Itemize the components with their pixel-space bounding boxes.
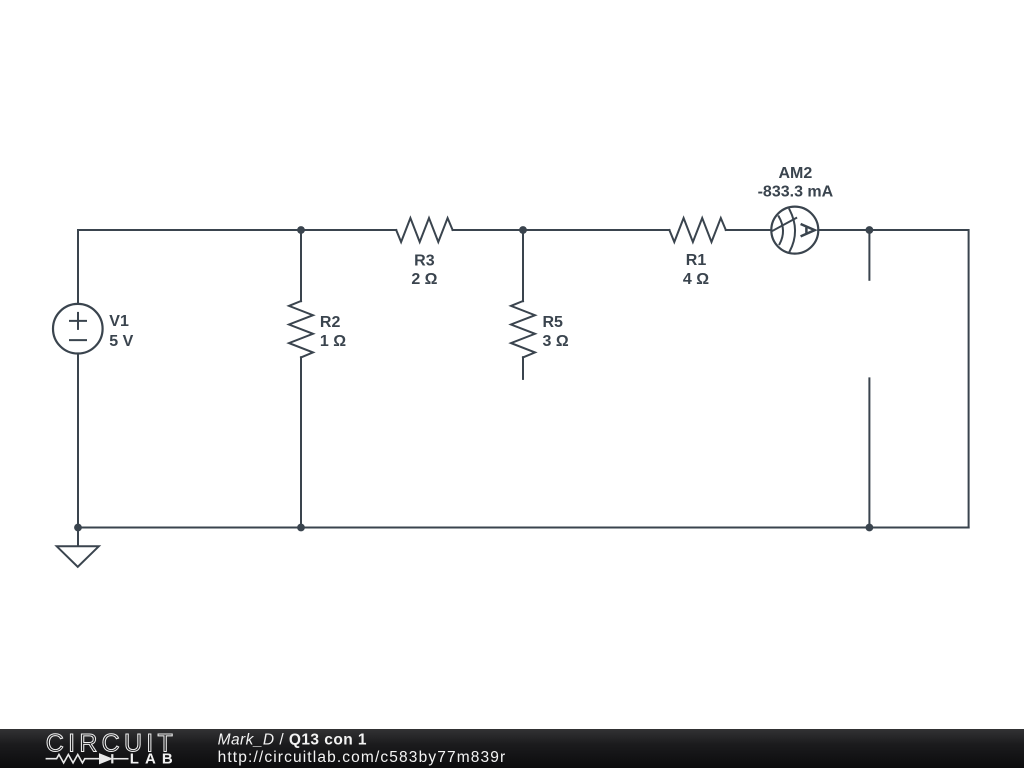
node B (R5 / top wire junction) [519, 226, 527, 234]
footer bar [0, 729, 1024, 768]
svg-text:R5: R5 [543, 314, 564, 331]
ammeter AM2 letter A [801, 224, 815, 236]
svg-text:2 Ω: 2 Ω [411, 271, 437, 288]
resistor R2 [289, 301, 313, 357]
node G (right stub bottom junction) [866, 524, 874, 532]
wire stub above bottom node D [868, 378, 870, 527]
ground [57, 528, 99, 567]
svg-text:Mark_D / Q13 con 1: Mark_D / Q13 con 1 [218, 732, 367, 749]
node C (AM2 output junction) [866, 226, 874, 234]
resistor R5 [511, 301, 535, 357]
svg-text:LAB: LAB [130, 750, 173, 767]
wire stub below node C [868, 230, 870, 280]
resistor R1 [669, 218, 725, 242]
wire node B to R5 top [522, 230, 524, 301]
node F (R2 bottom junction) [297, 524, 305, 532]
wire top-left: V1 top to R3 [78, 230, 396, 304]
svg-text:V1: V1 [109, 313, 129, 330]
wire R5 dangling stub [522, 357, 524, 379]
footer logo resistor-diode glyph [46, 754, 129, 763]
wire AM2 to top-right corner and down [818, 230, 968, 528]
svg-text:R3: R3 [414, 252, 435, 269]
svg-text:1 Ω: 1 Ω [320, 333, 346, 350]
wire V1 bottom [77, 354, 79, 528]
node A (R2 / top wire junction) [297, 226, 305, 234]
wire node A to R2 top [300, 230, 302, 301]
wire bottom [78, 527, 969, 529]
wire R3 to R1 [453, 229, 670, 231]
voltage source V1 [53, 304, 103, 354]
node E (ground junction) [74, 524, 82, 532]
ammeter AM2 [771, 207, 818, 254]
wire R2 bottom [300, 357, 302, 527]
svg-text:AM2: AM2 [779, 165, 813, 182]
svg-text:-833.3 mA: -833.3 mA [758, 183, 834, 200]
svg-text:3 Ω: 3 Ω [543, 333, 569, 350]
svg-text:4 Ω: 4 Ω [683, 271, 709, 288]
wire R1 to AM2 [726, 229, 772, 231]
svg-text:http://circuitlab.com/c583by77: http://circuitlab.com/c583by77m839r [218, 749, 506, 766]
svg-text:R2: R2 [320, 314, 341, 331]
svg-text:R1: R1 [686, 252, 707, 269]
resistor R3 [396, 218, 452, 242]
svg-text:5 V: 5 V [109, 333, 133, 350]
